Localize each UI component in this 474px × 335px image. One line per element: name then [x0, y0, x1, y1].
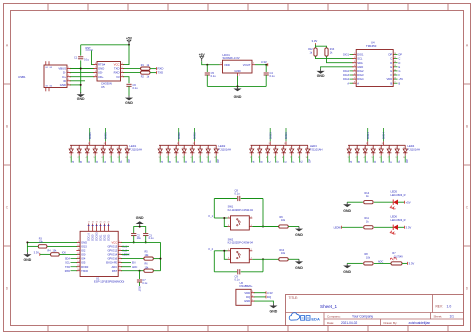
net label 3.3V (LDR) — [407, 262, 409, 265]
junction C5 top — [206, 64, 208, 66]
svg-text:IO0: IO0 — [81, 253, 86, 257]
wire C5 bottom to rail — [206, 75, 208, 86]
svg-text:DP: DP — [388, 53, 392, 57]
capacitor C2 — [131, 233, 136, 235]
wire R13 to SDA pin — [327, 56, 354, 63]
svg-text:LED-0603_R: LED-0603_R — [391, 193, 406, 197]
sensor U6 DS18B20 body — [236, 289, 251, 305]
capacitor C3 — [143, 233, 148, 235]
ground under pull-ups — [320, 69, 322, 71]
svg-text:GND: GND — [60, 83, 66, 87]
svg-text:GND: GND — [136, 216, 144, 220]
wire ID stub — [70, 80, 85, 82]
LED display LED3 — [250, 128, 323, 163]
svg-text:LED-0603_R: LED-0603_R — [391, 218, 406, 222]
svg-text:3.3V: 3.3V — [312, 39, 318, 43]
svg-text:+5V: +5V — [126, 36, 133, 40]
svg-text:C: C — [390, 57, 392, 61]
IC U4 TM1650 body — [356, 50, 393, 87]
svg-text:REV:: REV: — [436, 304, 443, 308]
svg-text:5: 5 — [372, 147, 373, 149]
svg-text:DP: DP — [127, 159, 131, 163]
svg-text:4: 4 — [266, 147, 267, 149]
svg-text:A: A — [252, 161, 256, 163]
resistor R12 — [314, 48, 317, 56]
svg-text:U5: U5 — [101, 85, 105, 89]
wire gnd to caps tee — [134, 227, 146, 233]
wire LED6 to 3.3V — [398, 226, 405, 228]
U1 left pins GND IO15 IO2 IO0 IO4 IO5 RXD0 TXD0 — [65, 241, 89, 273]
svg-text:V3: V3 — [116, 75, 120, 79]
ground (SW2) — [298, 259, 300, 261]
svg-text:E: E — [103, 161, 107, 163]
wire U4 GND pin to ground — [321, 67, 353, 69]
svg-text:DP: DP — [308, 159, 312, 163]
svg-text:9: 9 — [117, 157, 118, 159]
wire GND pin to bus — [70, 84, 81, 86]
U5 right pins VCC TXD RXD V3 — [114, 63, 124, 79]
wire gnd to R14 — [347, 201, 363, 203]
svg-text:SDD0: SDD0 — [92, 234, 95, 241]
svg-text:K_1: K_1 — [209, 215, 214, 218]
LED LED5 — [392, 200, 394, 205]
svg-text:ESP-12F(ESP8266MOD): ESP-12F(ESP8266MOD) — [94, 280, 124, 284]
svg-text:2: 2 — [356, 147, 357, 149]
junction RST C7 — [139, 270, 141, 272]
svg-text:GPIO13: GPIO13 — [107, 245, 117, 249]
wire IO15 to R3 — [47, 245, 77, 247]
ground left of U1 — [26, 252, 28, 254]
svg-text:10: 10 — [125, 157, 127, 159]
svg-text:A: A — [160, 161, 164, 163]
svg-text:7: 7 — [290, 157, 291, 159]
svg-text:+5V: +5V — [399, 78, 404, 81]
svg-text:0.1u: 0.1u — [149, 237, 154, 240]
svg-text:SDA: SDA — [65, 258, 70, 261]
resistor R8 — [364, 262, 373, 265]
LED display LED4 — [347, 128, 420, 163]
svg-text:10: 10 — [403, 147, 405, 149]
svg-text:SDCMD: SDCMD — [96, 232, 99, 241]
wire RST to R6 — [121, 270, 143, 272]
svg-text:K2-1102DP-C4SW-04: K2-1102DP-C4SW-04 — [228, 241, 254, 245]
wire R12 to SCL pin — [316, 56, 354, 59]
svg-text:RST: RST — [112, 269, 118, 273]
svg-text:9: 9 — [298, 147, 299, 149]
svg-text:C: C — [87, 161, 91, 163]
U5 left pins RTS# GND UD- UD+ — [93, 63, 105, 79]
svg-text:G: G — [300, 161, 304, 163]
svg-text:D: D — [390, 61, 392, 65]
svg-text:DIG1: DIG1 — [343, 54, 349, 57]
net label DQ — [265, 295, 267, 298]
ground (SW1) — [298, 227, 300, 229]
svg-text:2: 2 — [78, 147, 79, 149]
resistor R2 — [141, 71, 150, 74]
svg-text:17: 17 — [88, 222, 90, 224]
U4 right pins DP C D E G F VDD B — [387, 53, 404, 86]
svg-text:F: F — [389, 161, 393, 163]
svg-text:VOUT: VOUT — [243, 63, 251, 67]
svg-text:0.1u: 0.1u — [235, 277, 241, 281]
wire cap loop right vertical — [262, 199, 264, 227]
svg-text:2: 2 — [258, 157, 259, 159]
svg-text:3.3V: 3.3V — [406, 225, 412, 229]
svg-text:Date:: Date: — [327, 321, 334, 325]
wire LEDW to R11 — [342, 226, 363, 228]
wire V3 to C6 — [124, 77, 130, 84]
svg-text:10: 10 — [305, 157, 307, 159]
svg-text:1: 1 — [159, 147, 160, 149]
svg-text:RST: RST — [138, 287, 141, 292]
svg-text:5: 5 — [182, 157, 183, 159]
svg-text:EN/CH-PD: EN/CH-PD — [106, 263, 117, 265]
svg-text:GND: GND — [270, 309, 278, 313]
wire pin4 to resistor — [252, 258, 278, 260]
LDO1 pins VDD VOUT GND — [220, 63, 256, 77]
wire VDD to 3.3V — [254, 292, 266, 294]
svg-text:10u: 10u — [137, 237, 142, 240]
svg-text:+5V: +5V — [406, 200, 411, 204]
svg-text:C1: C1 — [74, 56, 78, 60]
svg-text:6: 6 — [101, 157, 102, 159]
svg-text:22: 22 — [107, 222, 109, 224]
ground (U6) — [272, 303, 274, 305]
wire VCC to +5V — [124, 45, 130, 65]
wire 3.3V to R4 — [40, 253, 51, 255]
junction C3 VCC — [145, 241, 147, 243]
svg-text:GND: GND — [343, 209, 351, 213]
wire R11 to LED6 — [374, 226, 393, 228]
svg-text:9: 9 — [118, 147, 119, 149]
svg-text:IO0: IO0 — [62, 251, 67, 254]
svg-text:2: 2 — [166, 157, 167, 159]
svg-text:1: 1 — [250, 157, 251, 159]
module U1 ESP-12F body — [80, 231, 118, 276]
wire gnd to R8 — [347, 262, 363, 264]
svg-text:TXD: TXD — [158, 71, 164, 75]
capacitor C6 — [126, 83, 131, 85]
svg-text:LEDW: LEDW — [334, 226, 342, 229]
svg-text:DS18B20+: DS18B20+ — [240, 284, 254, 288]
svg-text:DIG3: DIG3 — [268, 132, 272, 139]
svg-text:SDD3: SDD3 — [107, 234, 110, 241]
svg-text:GPIO14: GPIO14 — [107, 253, 117, 257]
LED display LED2 — [158, 128, 231, 163]
capacitor C9 — [237, 269, 239, 274]
svg-text:GND: GND — [244, 299, 250, 303]
svg-text:TITLE:: TITLE: — [289, 296, 299, 300]
resistor R13 — [325, 48, 328, 56]
wire +5V to LDO VDD — [202, 61, 220, 64]
ground (LDR divider) — [346, 263, 348, 265]
svg-text:DP: DP — [399, 54, 403, 57]
net label TXD — [156, 71, 158, 74]
wire R7 to 3.3V — [402, 262, 408, 264]
wire switch left side — [214, 217, 227, 219]
svg-text:Sheet:: Sheet: — [434, 314, 443, 318]
USB1 pins VBUS D- D+ ID GND — [58, 67, 70, 87]
wire cap loop left vertical — [213, 199, 215, 219]
svg-text:FJ1101AH: FJ1101AH — [219, 147, 232, 151]
svg-text:5: 5 — [183, 147, 184, 149]
svg-text:A: A — [357, 81, 359, 85]
svg-text:DIG4: DIG4 — [366, 132, 370, 139]
svg-text:GND: GND — [234, 95, 242, 99]
svg-text:Your Company: Your Company — [352, 314, 373, 318]
resistor R1 — [141, 67, 150, 70]
junction GND rail — [26, 241, 28, 243]
wire R8 to R7 — [374, 262, 391, 264]
wire R3 to GND rail — [27, 245, 38, 247]
capacitor C8 — [237, 196, 239, 201]
svg-text:C: C — [268, 161, 272, 163]
svg-text:B: B — [79, 161, 83, 163]
svg-text:ADC: ADC — [112, 265, 118, 269]
svg-text:DIG1: DIG1 — [357, 53, 364, 57]
svg-text:10: 10 — [306, 147, 308, 149]
wire R5 to rail — [153, 258, 160, 260]
svg-text:EN: EN — [132, 262, 136, 265]
svg-text:4: 4 — [363, 157, 364, 159]
svg-text:1: 1 — [348, 147, 349, 149]
svg-text:SC662K-3.3V: SC662K-3.3V — [223, 56, 240, 60]
svg-text:B: B — [168, 161, 172, 163]
svg-text:IO5: IO5 — [81, 261, 86, 265]
wire VOUT to 3.3V flag — [255, 64, 268, 66]
svg-text:D: D — [95, 161, 99, 163]
svg-text:IO2: IO2 — [81, 249, 86, 253]
svg-text:1: 1 — [250, 147, 251, 149]
U6 pins VDD DQ GND — [244, 291, 255, 303]
svg-text:G: G — [208, 161, 212, 163]
svg-text:G: G — [399, 70, 401, 73]
svg-text:GL7549: GL7549 — [394, 255, 404, 258]
svg-text:GND: GND — [125, 101, 133, 105]
svg-text:10: 10 — [125, 147, 127, 149]
svg-text:4: 4 — [174, 157, 175, 159]
svg-text:VDD: VDD — [224, 63, 230, 67]
wire cap rail right — [241, 198, 263, 200]
svg-text:DIG2: DIG2 — [193, 132, 197, 139]
svg-text:RXD0: RXD0 — [81, 265, 89, 269]
svg-text:6: 6 — [190, 157, 191, 159]
svg-text:5: 5 — [93, 157, 94, 159]
svg-text:ADC: ADC — [378, 260, 383, 263]
svg-text:6: 6 — [191, 147, 192, 149]
EasyEDA logo — [289, 313, 299, 321]
wire LDO ground rail — [207, 85, 266, 87]
svg-text:IO15: IO15 — [81, 245, 87, 249]
frame row ticks and letters left/right — [4, 43, 471, 290]
svg-text:9: 9 — [207, 147, 208, 149]
svg-text:SCL: SCL — [65, 262, 70, 265]
wire C4 top — [265, 65, 267, 72]
wire LED5 to +5V — [398, 201, 405, 203]
svg-text:Company:: Company: — [327, 314, 341, 318]
svg-text:G: G — [390, 69, 392, 73]
svg-text:Drawn By:: Drawn By: — [384, 321, 398, 325]
wire R6 to rail corner — [153, 270, 160, 272]
svg-text:DIG2: DIG2 — [177, 132, 181, 139]
svg-text:1/1: 1/1 — [450, 314, 455, 318]
svg-text:GND: GND — [234, 69, 240, 73]
svg-text:EDA: EDA — [311, 316, 320, 321]
junction top rail — [128, 44, 130, 46]
svg-text:7: 7 — [198, 157, 199, 159]
svg-text:DIG3: DIG3 — [343, 74, 349, 77]
svg-text:1: 1 — [347, 157, 348, 159]
ground above decoupling caps — [139, 224, 141, 226]
U1 right pins VCC GPIO13 GPIO12 GPIO14 GPIO16 EN/CH-PD ADC RST — [106, 241, 122, 273]
svg-text:DQ: DQ — [246, 295, 250, 299]
svg-text:VDD: VDD — [387, 77, 393, 81]
svg-text:+5V: +5V — [199, 53, 206, 57]
svg-text:9: 9 — [395, 157, 396, 159]
svg-text:6: 6 — [102, 147, 103, 149]
svg-text:7: 7 — [290, 147, 291, 149]
wire RXD to R2 — [124, 72, 141, 74]
svg-text:D: D — [184, 161, 188, 163]
svg-text:B: B — [390, 81, 392, 85]
svg-text:7: 7 — [199, 147, 200, 149]
svg-text:LED1: LED1 — [130, 144, 137, 148]
switch SW2 — [228, 249, 253, 263]
svg-text:0.1u: 0.1u — [84, 58, 90, 62]
junction caps tee — [139, 226, 141, 228]
wire D- to UD- — [70, 72, 94, 74]
net label +5V (LED5) — [404, 201, 406, 204]
wire C6 to ground — [128, 86, 130, 95]
svg-text:19: 19 — [96, 222, 98, 224]
resistor R5 — [144, 257, 153, 260]
ground under C6 — [128, 96, 130, 98]
svg-text:0.1u: 0.1u — [142, 282, 147, 285]
junction C4 top — [265, 64, 267, 66]
wire top rail to +5V — [81, 44, 129, 46]
wire RST to RTS# pin — [92, 51, 95, 65]
svg-text:2021-04-02: 2021-04-02 — [341, 321, 358, 325]
svg-text:DIG3: DIG3 — [284, 132, 288, 139]
photoresistor R7 — [391, 262, 402, 265]
svg-text:GPIO16: GPIO16 — [107, 257, 117, 261]
svg-text:A: A — [71, 161, 75, 163]
svg-text:D: D — [373, 161, 377, 163]
wire cap loop right vertical — [262, 259, 264, 272]
svg-text:10: 10 — [214, 147, 216, 149]
svg-text:GND: GND — [295, 266, 303, 270]
U4 left pins DIG1 SCL SDA GND DIG2 DIG3 DIG4 A — [343, 53, 364, 86]
svg-text:UD+: UD+ — [98, 75, 104, 79]
regulator LDO1 SC662K body — [223, 60, 253, 73]
svg-text:E: E — [192, 161, 196, 163]
U1 top pins CLK SD0 CMD SD1 SD2 SD3 — [88, 222, 111, 241]
svg-text:6: 6 — [282, 157, 283, 159]
svg-text:E: E — [284, 161, 288, 163]
svg-text:K2-1102DP-C4SW-04: K2-1102DP-C4SW-04 — [228, 208, 254, 212]
resistor R10 — [279, 258, 288, 261]
svg-text:D: D — [399, 62, 401, 65]
svg-text:VDD: VDD — [244, 291, 250, 295]
wire VCC pin to 3.3V rail — [121, 241, 160, 243]
svg-text:18: 18 — [92, 222, 94, 224]
wire U1 GND to ground — [27, 242, 77, 252]
svg-text:21: 21 — [104, 222, 106, 224]
wire U6 GND to ground — [254, 301, 273, 303]
svg-text:GPIO12: GPIO12 — [107, 249, 117, 253]
wire C4 bottom to rail — [265, 75, 267, 86]
junction VBUS — [80, 68, 82, 70]
svg-text:F: F — [200, 161, 204, 163]
switch SW1 — [228, 216, 253, 230]
svg-text:FJ1101AH: FJ1101AH — [130, 147, 143, 151]
svg-text:20: 20 — [100, 222, 102, 224]
resistor R11 — [364, 226, 373, 229]
svg-text:10: 10 — [403, 157, 405, 159]
svg-text:DIG1: DIG1 — [88, 132, 92, 139]
svg-text:0.1u: 0.1u — [235, 192, 241, 196]
wire resistor to ground — [288, 258, 299, 260]
svg-text:RST: RST — [86, 46, 92, 50]
svg-text:Sheet_1: Sheet_1 — [320, 304, 338, 309]
wire GPIO16 to R5 — [121, 258, 143, 260]
svg-text:5: 5 — [94, 147, 95, 149]
wire DQ to label — [254, 296, 266, 298]
svg-text:TXD0: TXD0 — [81, 269, 88, 273]
svg-text:E: E — [381, 161, 385, 163]
wire pin4 to resistor — [252, 226, 278, 228]
wire ADC stub — [121, 266, 131, 268]
wire cap rail left — [214, 271, 237, 273]
svg-text:FJ1101AH: FJ1101AH — [310, 147, 323, 151]
junction GND — [80, 84, 82, 86]
svg-text:GND: GND — [81, 241, 87, 245]
svg-text:10: 10 — [214, 157, 216, 159]
svg-text:VCC: VCC — [112, 241, 118, 245]
LED display LED1 — [69, 128, 142, 163]
svg-text:C: C — [399, 58, 401, 61]
svg-text:GND: GND — [295, 233, 303, 237]
wire cap rail left — [214, 198, 237, 200]
wire LDO GND pin down — [237, 76, 239, 86]
svg-text:C: C — [365, 161, 369, 163]
svg-text:3.3V: 3.3V — [409, 262, 415, 266]
wire cap loop left vertical — [213, 251, 215, 272]
power flag +5V (LDO section) — [201, 59, 203, 61]
svg-text:G: G — [119, 161, 123, 163]
svg-text:DIG2: DIG2 — [357, 69, 364, 73]
svg-text:2: 2 — [77, 157, 78, 159]
svg-text:4: 4 — [86, 147, 87, 149]
svg-text:GND: GND — [343, 270, 351, 274]
svg-text:GND: GND — [24, 258, 32, 262]
svg-text:DP: DP — [216, 159, 220, 163]
junction LDO rail — [237, 85, 239, 87]
connector USB1 — [44, 61, 67, 91]
svg-text:DIG4: DIG4 — [382, 132, 386, 139]
resistor R4 — [51, 253, 60, 256]
svg-text:G: G — [397, 161, 401, 163]
svg-text:9: 9 — [298, 157, 299, 159]
svg-text:zuishuaidelijian: zuishuaidelijian — [409, 321, 431, 325]
svg-text:5: 5 — [274, 157, 275, 159]
svg-text:SDA: SDA — [357, 61, 363, 65]
LED LED6 — [392, 225, 394, 230]
net label RXD — [156, 67, 158, 70]
svg-text:USB1: USB1 — [18, 75, 26, 79]
power flag +5V (USB section) — [128, 42, 130, 44]
svg-text:9: 9 — [396, 147, 397, 149]
